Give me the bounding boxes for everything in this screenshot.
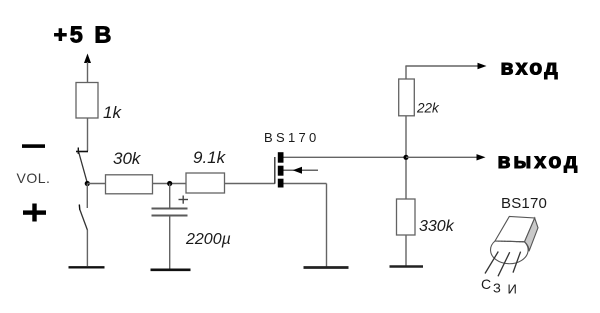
svg-text:330k: 330k bbox=[419, 218, 455, 235]
wire 22k to node C bbox=[405, 116, 407, 199]
resistor 330k bbox=[397, 199, 455, 235]
svg-text:+5 В: +5 В bbox=[54, 22, 114, 48]
label minus bbox=[22, 144, 45, 148]
svg-text:2200µ: 2200µ bbox=[185, 231, 231, 248]
label plus bbox=[23, 204, 46, 222]
arrow vhod bbox=[478, 63, 487, 69]
ground under 330k bbox=[390, 265, 424, 267]
dotted front edge bbox=[495, 240, 525, 243]
resistor 9.1k bbox=[186, 148, 227, 193]
svg-text:VOL.: VOL. bbox=[17, 170, 51, 186]
right shaded face bbox=[525, 218, 539, 251]
svg-text:9.1k: 9.1k bbox=[193, 148, 227, 167]
wire source to ground bbox=[284, 184, 327, 267]
node B junction dot bbox=[167, 181, 172, 186]
svg-text:вход: вход bbox=[501, 57, 561, 80]
arrow vyhod bbox=[477, 154, 486, 160]
svg-text:З: З bbox=[493, 281, 501, 296]
top face bbox=[495, 217, 535, 242]
svg-text:С: С bbox=[481, 276, 491, 292]
wire 30k to 9.1k bbox=[153, 183, 187, 185]
svg-text:30k: 30k bbox=[113, 149, 142, 168]
wire resistor to switch bbox=[87, 118, 89, 151]
resistor 30k bbox=[106, 149, 153, 194]
svg-text:1k: 1k bbox=[103, 103, 122, 122]
wire top corner to 22k bbox=[405, 66, 479, 79]
transistor Q1 BS170 symbol bbox=[275, 152, 318, 187]
wire 9.1k to gate bbox=[225, 183, 275, 185]
power arrow bbox=[84, 54, 91, 83]
ground under source bbox=[304, 266, 349, 269]
package leg C bbox=[485, 252, 498, 274]
svg-text:И: И bbox=[508, 282, 517, 297]
svg-text:22k: 22k bbox=[416, 101, 440, 116]
package leg Z bbox=[498, 252, 510, 276]
ground under capacitor bbox=[151, 268, 191, 271]
wire 330k to ground bbox=[405, 235, 407, 266]
svg-text:выход: выход bbox=[498, 150, 581, 173]
switch S1 upper bbox=[76, 148, 88, 184]
node C junction dot bbox=[403, 155, 408, 160]
svg-text:BS170: BS170 bbox=[264, 130, 320, 145]
svg-text:BS170: BS170 bbox=[501, 195, 547, 212]
node A junction dot bbox=[85, 181, 90, 186]
resistor 1k bbox=[76, 83, 122, 123]
wire node C to output arrow bbox=[406, 156, 477, 158]
wire node A to 30k bbox=[87, 183, 105, 185]
wire drain to output node bbox=[284, 156, 407, 158]
resistor 22k bbox=[399, 79, 440, 116]
front D face bbox=[491, 241, 529, 264]
capacitor C1 2200u bbox=[152, 184, 231, 270]
package leg I bbox=[513, 252, 521, 273]
ground under switch bbox=[69, 266, 105, 268]
package TO-92 drawing bbox=[491, 217, 538, 264]
switch S2 lower bbox=[79, 184, 87, 267]
